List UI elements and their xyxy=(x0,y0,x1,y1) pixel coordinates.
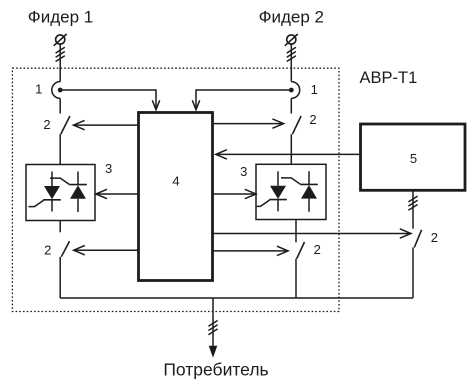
svg-text:2: 2 xyxy=(314,242,321,257)
svg-text:2: 2 xyxy=(43,117,50,132)
svg-text:1: 1 xyxy=(35,81,42,96)
svg-text:АВР-Т1: АВР-Т1 xyxy=(360,69,418,87)
svg-text:2: 2 xyxy=(431,230,438,245)
svg-text:Фидер 2: Фидер 2 xyxy=(259,8,324,27)
svg-text:1: 1 xyxy=(311,82,318,97)
svg-text:3: 3 xyxy=(105,161,112,176)
svg-text:Потребитель: Потребитель xyxy=(163,360,268,380)
svg-text:2: 2 xyxy=(44,242,51,257)
svg-text:2: 2 xyxy=(309,112,316,127)
svg-text:5: 5 xyxy=(410,151,417,166)
svg-text:4: 4 xyxy=(172,173,179,188)
svg-text:Фидер 1: Фидер 1 xyxy=(28,8,93,27)
svg-text:3: 3 xyxy=(240,164,247,179)
